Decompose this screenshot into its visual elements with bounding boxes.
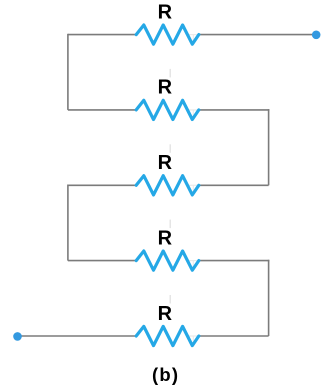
wire: left vertical row 3 to row 4 — [67, 185, 69, 261]
wire: row 3 left horizontal — [68, 184, 136, 186]
wire: row 1 right horizontal to terminal — [199, 34, 313, 36]
wire: row 5 left horizontal from terminal — [21, 335, 137, 337]
wire: row 4 left horizontal — [68, 260, 136, 262]
wire: left vertical row 1 to row 2 — [67, 34, 69, 110]
faint wire ghost right of resistor row 1 — [187, 34, 198, 36]
resistor R (row 1) — [136, 25, 199, 44]
wire: row 5 right horizontal — [199, 335, 269, 337]
faint wire ghost right of resistor row 2 — [187, 109, 198, 111]
wire: row 3 right horizontal — [199, 184, 269, 186]
terminal node (top right) — [312, 31, 321, 40]
faint wire ghost right of resistor row 3 — [187, 184, 198, 186]
faint wire ghost right of resistor row 5 — [187, 335, 198, 337]
wire: row 2 left horizontal — [68, 109, 136, 111]
svg-text:(b): (b) — [152, 364, 179, 385]
svg-text:R: R — [158, 152, 173, 174]
resistor R (row 5) — [136, 326, 199, 345]
faint artifact tick above R (row 3) — [169, 144, 171, 153]
wire: right vertical row 2 to row 3 — [268, 109, 270, 185]
faint artifact tick above R (row 2) — [169, 69, 171, 78]
svg-text:R: R — [158, 1, 173, 23]
svg-text:R: R — [158, 77, 173, 99]
wire: right vertical row 4 to row 5 — [268, 260, 270, 336]
svg-text:R: R — [158, 227, 173, 249]
terminal node (bottom left) — [13, 332, 22, 341]
resistor R (row 3) — [136, 176, 199, 195]
wire: row 2 right horizontal — [199, 109, 270, 111]
faint artifact tick above R (row 5) — [169, 295, 171, 304]
wire: row 4 right horizontal — [199, 260, 270, 262]
resistor R (row 2) — [136, 100, 199, 119]
resistor R (row 4) — [136, 251, 199, 270]
faint artifact tick above R (row 4) — [169, 220, 171, 229]
wire: row 1 left horizontal — [68, 34, 136, 36]
svg-text:R: R — [158, 303, 173, 325]
faint wire ghost right of resistor row 4 — [187, 260, 198, 262]
